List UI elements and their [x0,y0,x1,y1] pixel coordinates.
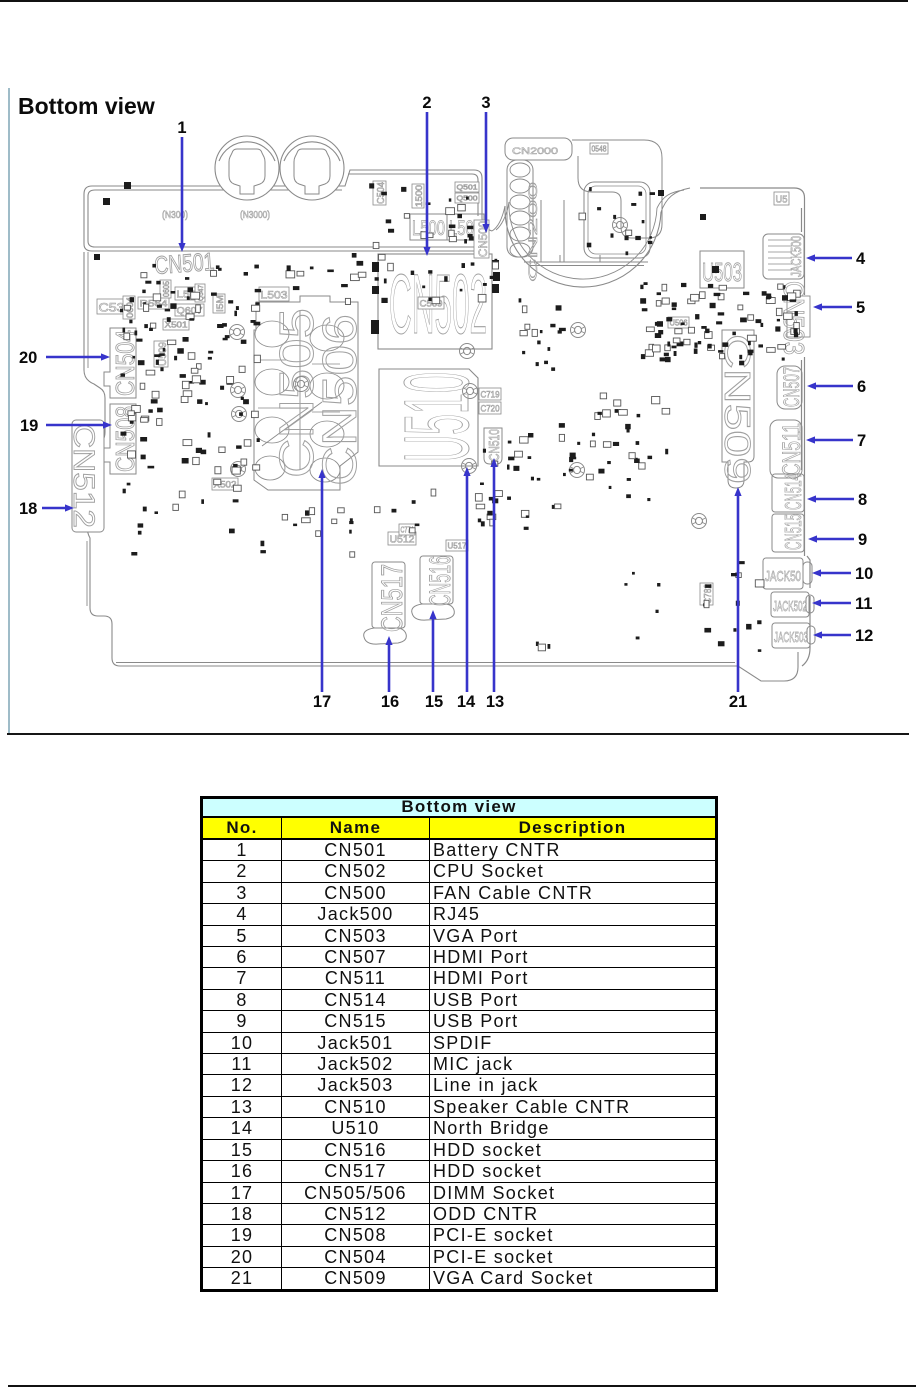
svg-text:19: 19 [20,417,38,435]
main board perimeter left/bottom/right [84,188,810,681]
callout arrow 10 [812,569,851,576]
svg-text:12: 12 [855,627,873,645]
svg-text:2: 2 [422,94,431,112]
part 0604 [123,296,135,319]
svg-text:8: 8 [858,491,867,509]
svg-text:CN506: CN506 [314,314,367,486]
svg-text:21: 21 [729,693,747,711]
figure title [18,93,155,120]
via 10 [570,463,585,478]
RJ45 JACK500 [763,234,804,279]
svg-text:U512: U512 [390,535,415,546]
via 6 [460,344,475,359]
callout arrow 1 [178,137,185,252]
svg-text:CN510: CN510 [486,429,503,461]
SMD cluster fan interior [579,187,655,255]
summary table [200,796,718,1292]
SMD cluster top middle [286,253,499,305]
svg-text:1500: 1500 [414,185,424,207]
MIC jack JACK502 [771,592,814,617]
svg-text:CN517: CN517 [376,564,409,632]
resistor R564 [138,297,169,309]
sparse scatter e [624,572,660,640]
top horizontal rule [0,0,908,2]
svg-text:5: 5 [856,299,865,317]
callout arrow 9 [808,535,854,542]
callout arrow 4 [806,254,852,261]
via 5 [294,377,309,392]
svg-text:CN514: CN514 [780,474,806,510]
via 1 [230,325,245,340]
CN500 box [474,220,490,258]
battery bay pads [94,182,719,273]
part Q501 [455,182,479,192]
callout arrow 21 [734,487,741,692]
VGA port CN503 [787,296,810,337]
svg-text:L503: L503 [261,290,288,302]
HDMI port CN507 [777,366,802,409]
via 7 [463,384,478,399]
svg-text:JACK500: JACK500 [788,236,805,277]
HDD socket CN517 [364,562,407,644]
callout arrow 6 [807,382,853,389]
battery latch circle right [280,136,344,200]
svg-text:U510: U510 [386,372,488,462]
svg-text:15: 15 [425,693,443,711]
svg-text:9: 9 [858,531,867,549]
IC U506 [668,317,689,328]
SMD cluster mid right [559,393,670,474]
svg-text:U503: U503 [702,257,742,287]
SMD cluster near jacks [703,561,764,652]
ODD connector CN512 [72,420,104,532]
svg-text:(N300): (N300) [162,210,188,221]
SMD cluster below fan [519,298,566,336]
crystal X501 [163,319,189,330]
DIMM socket CN505/CN506 outline [254,296,358,490]
callout arrow 12 [813,631,851,638]
cap C569 [418,297,444,309]
svg-text:0548: 0548 [592,145,607,154]
fan cutout arc [492,202,661,287]
svg-text:Q501: Q501 [457,185,478,192]
svg-text:18: 18 [19,500,37,518]
callout arrow 20 [46,353,110,360]
fan coil CN200 [510,163,530,257]
svg-text:CN511: CN511 [778,423,806,476]
cap C504 [373,181,387,205]
bottom horizontal rule [8,1385,916,1387]
VGA card socket CN509 [722,330,754,488]
svg-text:7: 7 [857,432,866,450]
S-curve fan to top-right [657,188,690,212]
svg-text:13: 13 [486,693,504,711]
fan region upper lobe CN2000 [505,138,662,258]
USB port CN515 [772,514,804,552]
SMD cluster above CN502 [369,183,473,248]
via 9 [571,323,586,338]
part [412,184,424,208]
cap C719 [479,388,501,400]
via 8 [462,459,477,474]
part Q607 [175,304,204,316]
svg-text:CN512: CN512 [67,424,100,528]
SMD cluster near CN510 [483,433,534,471]
cap C774 [399,524,415,535]
callout arrow 8 [807,495,854,502]
callout arrow 7 [806,436,853,443]
svg-text:4: 4 [856,250,866,268]
svg-text:CN516: CN516 [424,556,457,606]
IC U503 [700,251,744,288]
callout arrow 19 [46,421,112,428]
small part top right [774,192,789,206]
via 3 [232,407,247,422]
PCI-E socket CN504 [104,328,136,398]
sparse scatter b [524,473,566,530]
figure bottom border [7,733,909,735]
callout arrow 2 [423,112,430,256]
IC U512 [388,532,416,546]
callout arrow 11 [812,599,851,606]
svg-text:(N3000): (N3000) [240,210,270,221]
svg-text:JACK502: JACK502 [773,598,807,615]
callout arrow 17 [318,469,325,692]
via 2 [231,383,246,398]
svg-text:C720: C720 [481,404,500,414]
PCI-E socket CN508 [104,404,136,474]
svg-text:14: 14 [457,693,476,711]
svg-text:C719: C719 [481,390,500,400]
HDMI port CN511 [770,420,802,478]
sparse scatter c [374,500,419,533]
IC U517 [446,540,468,551]
svg-text:20: 20 [19,349,37,367]
via 4 [231,462,246,477]
svg-text:CN200: CN200 [526,181,540,282]
svg-text:CN501: CN501 [153,248,215,280]
cap C535 [97,299,134,315]
svg-text:10: 10 [855,565,873,583]
SMD cluster left [120,281,261,474]
cap C720 [479,402,501,414]
svg-text:6: 6 [857,378,866,396]
crystal X502 [212,478,238,490]
North bridge U510 [379,369,478,466]
svg-text:17: 17 [313,693,331,711]
SMD bottom edge parts [536,642,550,651]
svg-text:CN515: CN515 [780,514,806,550]
part [213,294,225,313]
SMD cluster right upper [640,282,800,365]
sparse scatter a [293,508,353,537]
battery latch circle left [215,136,279,200]
via 11 [692,514,707,529]
svg-text:I5M: I5M [215,295,225,312]
SPDIF JACK501 [763,558,812,589]
svg-text:CN503: CN503 [777,281,809,355]
HDD socket CN516 [412,556,455,620]
cap C782 [700,583,714,605]
speaker connector CN510 [484,428,502,464]
SMD cluster bottom middle [431,483,529,527]
CN502 edge pads [371,260,500,334]
svg-text:16: 16 [381,693,399,711]
sparse scatter f [522,341,555,371]
SMD cluster below DIMM [260,508,354,558]
part Q500 [455,193,479,203]
svg-text:3: 3 [481,94,490,112]
board outline: battery compartment [84,170,492,251]
SMD cluster left lower [123,479,242,555]
sparse scatter g [141,264,314,280]
svg-text:0605: 0605 [162,281,171,297]
DIMM socket ellipses [255,310,344,482]
svg-text:1: 1 [177,119,186,137]
fan bracket shelf [524,200,648,266]
inductors L500 L501 [410,214,484,240]
callout arrow 13 [490,458,497,692]
svg-text:JACK503: JACK503 [774,629,808,646]
svg-text:U517: U517 [448,542,468,551]
svg-text:11: 11 [855,595,872,613]
callout arrow 15 [429,610,436,692]
callout arrow 3 [482,112,489,233]
inductor L502 [175,287,204,301]
part [590,143,608,154]
callout arrow 14 [463,467,470,692]
IC U509 [154,341,169,367]
part 0605 [160,280,171,298]
figure left border [8,88,10,735]
CPU socket CN502 [378,254,492,349]
Line-in jack JACK503 [772,623,815,648]
svg-text:CN507: CN507 [779,367,804,407]
svg-text:U5: U5 [776,195,788,206]
sparse scatter d [586,474,650,501]
callout arrow 5 [813,303,852,310]
svg-text:JACK50: JACK50 [765,568,801,585]
USB port CN514 [772,474,804,512]
part Q547 [195,284,205,302]
svg-text:CN2000: CN2000 [512,146,558,156]
callout arrow 18 [42,504,74,511]
inductor L503 [259,287,289,302]
callout arrow 16 [385,636,392,692]
via 12 [613,218,628,233]
